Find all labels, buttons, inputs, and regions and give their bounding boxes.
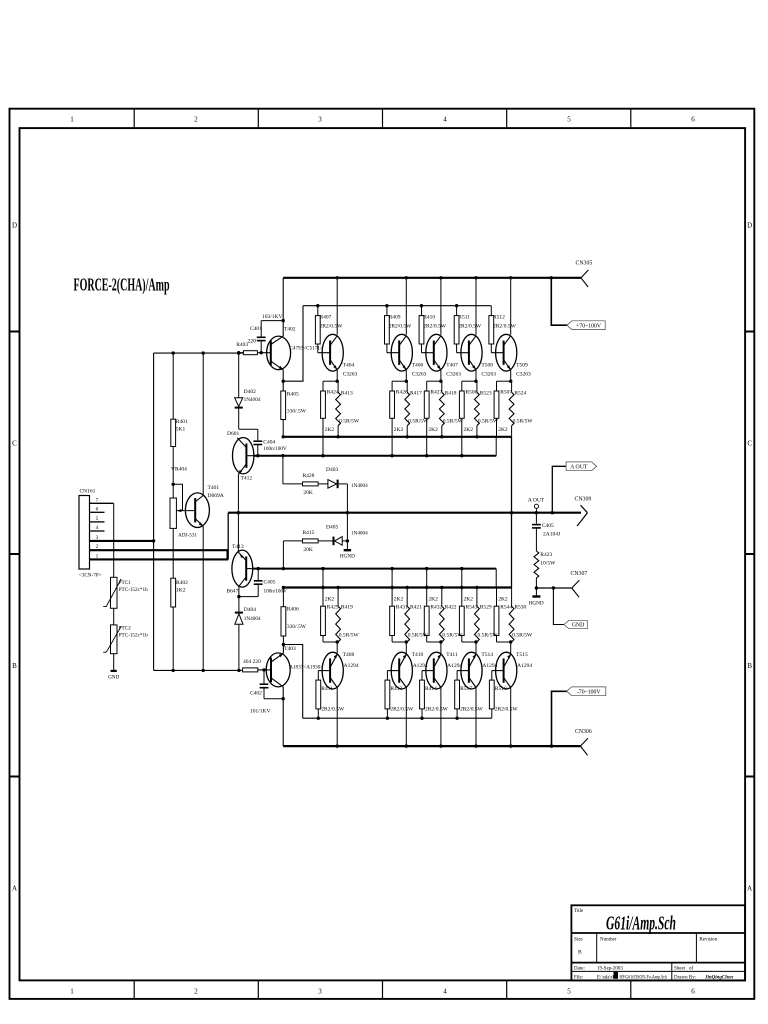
svg-text:VR404: VR404 [171,467,187,473]
wire lower bias to rail3 stubs [322,569,324,588]
svg-text:FORCE-2(CHA)/Amp: FORCE-2(CHA)/Amp [74,275,170,295]
svg-text:T404: T404 [343,363,355,369]
pin 7 CN161 [90,502,114,504]
svg-text:Number: Number [600,938,617,943]
diode D403 1N4004 [318,483,328,485]
wire bus-output-rail3 tie vertical [511,437,513,588]
diode D402 1N4004 [238,353,240,398]
svg-text:R421: R421 [410,604,422,610]
svg-text:Date:: Date: [574,966,585,971]
svg-text:C3263: C3263 [412,372,427,378]
thermistor PTC1 PTC-152c*1b [113,503,115,577]
svg-text:1N4004: 1N4004 [351,531,368,537]
resistor R506 2K2 [461,381,463,391]
svg-text:7: 7 [96,497,99,503]
svg-text:2: 2 [194,116,198,124]
svg-text:R544: R544 [500,604,512,610]
ground HGND at D405 [346,539,349,542]
svg-text:Revision: Revision [699,938,717,943]
svg-text:0.5R/5W: 0.5R/5W [443,419,464,425]
wire T411 collector [440,688,442,747]
resistor R432 2K2 [426,588,428,607]
svg-text:0.5R/5W: 0.5R/5W [408,419,429,425]
wire upper bias line [254,455,497,457]
svg-text:HGND: HGND [340,554,355,560]
svg-text:220: 220 [253,659,262,665]
wire pin1 to output [90,558,229,560]
svg-text:R418: R418 [445,391,457,397]
capacitor C404 100n/100V [257,429,259,440]
svg-text:A1294: A1294 [344,663,359,669]
pin 4 CN161 [90,530,105,532]
resistor R419 0.5R/5W [337,588,339,607]
svg-text:JinQingChen: JinQingChen [704,974,733,980]
svg-text:D601: D601 [227,431,239,437]
wire T407 emitter [440,370,442,381]
transistor T402 C4793 [257,352,270,354]
svg-text:HGND: HGND [529,601,544,607]
resistor R507 2K2 [496,381,498,391]
svg-text:T412: T412 [241,476,253,482]
svg-text:B: B [578,950,582,956]
svg-text:CN309: CN309 [575,497,592,503]
svg-text:G61i/Amp.Sch: G61i/Amp.Sch [606,913,676,935]
svg-text:R424: R424 [327,390,339,396]
resistor R405 330/.5W [281,391,286,420]
svg-text:T402: T402 [284,327,296,333]
svg-text:2K2: 2K2 [498,596,508,602]
wire T410 emitter [392,641,406,643]
resistor R421 0.5R/5W [406,588,408,607]
resistor R402 1K2 [171,578,176,607]
resistor R428 20K [303,482,319,486]
svg-text:R530: R530 [514,604,526,610]
capacitor C402 10n/1KV [263,670,265,684]
svg-text:Sheet: Sheet [674,966,686,971]
transistor T403 A1837 [258,669,271,671]
svg-text:220: 220 [248,339,256,345]
svg-text:2R2/0.5W: 2R2/0.5W [495,707,519,713]
sheet border inner frame [20,128,746,980]
svg-text:A: A [12,885,17,893]
svg-text:2R2/0.5W: 2R2/0.5W [460,707,484,713]
svg-text:4: 4 [443,116,447,124]
resistor R426 2K2 [391,381,393,391]
transistor T509 C3263 [510,278,512,335]
resistor R409 base 2R2/0.5W [386,306,388,316]
transistor T514 A1294 [461,652,482,689]
svg-text:5: 5 [96,516,99,522]
svg-text:D405: D405 [326,525,338,531]
svg-text:101/1KV: 101/1KV [250,709,271,715]
svg-text:1N4004: 1N4004 [244,397,261,403]
wire to GND flag [552,586,555,589]
resistor R414 base 2R2/0.5W [421,671,423,681]
svg-text:T403: T403 [284,646,296,652]
wire upper output bus [283,436,511,438]
svg-text:2R2/0.5W: 2R2/0.5W [320,324,344,330]
diode D404 1N4004 [235,612,243,614]
svg-text:R506: R506 [466,390,478,396]
svg-text:10/5W: 10/5W [540,561,556,567]
frame column ticks [133,109,135,128]
node upper base rail dots [316,304,319,307]
svg-text:2R2/0.5W: 2R2/0.5W [425,707,449,713]
svg-text:CN161: CN161 [80,489,96,495]
diode D405 1N4004 [318,540,333,542]
svg-text:<3CN-7P>: <3CN-7P> [79,573,102,579]
wire pin3 to input node [90,540,154,542]
wire to A OUT flag [552,466,566,512]
svg-text:R517: R517 [460,686,472,692]
transistor T406 C3263 [405,278,407,335]
resistor R413 base 2R2/0.5W [386,671,388,681]
wire T509 emitter [510,370,512,381]
resistor R427 2K2 [426,381,428,391]
svg-text:T515: T515 [516,652,528,658]
svg-text:B: B [12,662,17,670]
svg-text:0.5R/5W: 0.5R/5W [478,419,499,425]
wire T508 emitter [475,370,477,381]
svg-text:2K2: 2K2 [325,427,335,433]
svg-text:2: 2 [194,988,198,996]
wire VR404 to R402 [172,528,174,578]
svg-text:GND: GND [572,623,585,629]
pin 5 CN161 [90,521,105,523]
wire HGND line to CN307 [535,586,538,589]
resistor R524 0.5R/5W [511,381,513,392]
svg-text:A OUT: A OUT [528,498,545,504]
svg-text:1N4004: 1N4004 [244,616,261,622]
svg-text:R411: R411 [321,686,333,692]
svg-text:5K1: 5K1 [176,427,186,433]
svg-text:1: 1 [70,116,74,124]
wire T403 emitter to lower base rail [282,645,284,654]
wire bias to R415 [282,541,284,569]
wire T413 collector [238,586,240,612]
frame row ticks [10,331,20,333]
node output line dots [237,511,240,514]
svg-text:R524: R524 [514,391,526,397]
node bottom rail dots [336,744,339,747]
wire top bias feed line [154,352,244,354]
svg-text:PTC-152c*1b: PTC-152c*1b [119,587,149,593]
svg-text:CN305: CN305 [576,261,593,267]
svg-text:2K2: 2K2 [464,427,474,433]
svg-text:R402: R402 [176,580,188,586]
svg-text:C405: C405 [264,580,276,586]
wire +V top rail [283,277,581,279]
pin 6 CN161 [90,511,105,513]
title block title row divider [571,932,745,934]
svg-text:D: D [747,222,752,230]
svg-text:GND: GND [108,675,119,681]
wire upper base rail [303,305,491,307]
svg-text:R417: R417 [410,391,422,397]
power flag +70~100V [567,321,605,330]
svg-text:+70~100V: +70~100V [576,323,602,329]
svg-text:R422: R422 [445,604,457,610]
power flag -70~100V [567,687,606,696]
svg-text:R523: R523 [480,391,492,397]
svg-text:6: 6 [691,988,695,996]
svg-text:2K2: 2K2 [428,427,438,433]
svg-text:A: A [747,885,752,893]
svg-text:D402: D402 [244,389,256,395]
svg-text:20K: 20K [303,547,313,553]
resistor R544 2K2 [496,588,498,607]
resistor R410 base 2R2/0.5W [421,306,423,316]
node lower base rail dots [317,717,320,720]
resistor R543 2K2 [461,588,463,607]
title block size/number row divider [571,962,745,964]
svg-text:D669A: D669A [208,493,224,499]
svg-text:C405: C405 [542,523,554,529]
resistor R529 0.5R/5W [476,588,478,607]
resistor R404 220 [243,668,258,672]
wire input node vertical [153,353,155,670]
svg-text:6: 6 [96,506,99,512]
transistor T410 A1294 [391,652,412,689]
svg-text:2R2/0.5W: 2R2/0.5W [321,707,345,713]
svg-text:of: of [689,966,694,971]
wire T403 collector [282,687,284,746]
wire D403 to output node [346,484,348,541]
svg-text:R401: R401 [176,419,188,425]
svg-text:Size: Size [574,938,583,943]
svg-text:330/.5W: 330/.5W [287,409,307,415]
svg-text:4: 4 [443,988,447,996]
svg-text:R405: R405 [287,392,299,398]
svg-text:R413: R413 [341,391,353,397]
svg-text:Drawn By:: Drawn By: [674,975,696,980]
capacitor C405 100n/100V [257,569,259,580]
svg-text:T514: T514 [481,652,493,658]
wire upper bias to bus stubs [322,437,324,456]
svg-text:R407: R407 [320,315,332,321]
resistor R517 base 2R2/0.5W [456,671,458,681]
wire bottom left rail [154,669,243,671]
svg-text:2K2: 2K2 [394,427,404,433]
svg-text:R429: R429 [327,604,339,610]
ground GND input [113,654,115,670]
transistor T404 C3263 [336,278,338,335]
svg-text:C: C [747,440,752,448]
svg-text:2R2/0.5W: 2R2/0.5W [458,324,482,330]
svg-text:103/1KV: 103/1KV [262,314,283,320]
resistor R424 2K2 [322,381,324,391]
title block outline [571,905,745,980]
wire T401 emitter [202,526,204,670]
transistor T401 D669A [185,493,209,528]
wire T514 emitter [462,641,476,643]
svg-text:C3263: C3263 [343,372,358,378]
resistor R413 0.5R/5W [337,381,339,392]
wire T514 collector [475,688,477,747]
svg-text:T410: T410 [412,652,424,658]
svg-text:100n/100V: 100n/100V [264,589,288,595]
svg-text:R543: R543 [466,604,478,610]
resistor R417 0.5R/5W [406,381,408,392]
svg-text:3: 3 [318,988,322,996]
wire T408 collector [336,688,338,747]
title block date row [571,970,745,972]
resistor R429 2K2 [322,588,324,607]
svg-text:2R2/0.5W: 2R2/0.5W [493,324,517,330]
svg-text:B: B [747,662,752,670]
wire -V bottom rail [283,745,580,747]
svg-text:File:: File: [574,975,583,980]
svg-text:Title: Title [574,909,584,914]
node top rail junction dots [336,276,339,279]
svg-text:-70~100V: -70~100V [577,690,602,696]
svg-text:19-Sep-2003: 19-Sep-2003 [597,966,623,971]
svg-text:R413: R413 [390,686,402,692]
wire T410 collector [405,688,407,747]
svg-text:3: 3 [318,116,322,124]
svg-text:2K2: 2K2 [464,596,474,602]
svg-text:1N4004: 1N4004 [351,483,368,489]
svg-text:2R2/0.5W: 2R2/0.5W [389,324,413,330]
svg-text:R529: R529 [480,604,492,610]
svg-text:2R2/0.5W: 2R2/0.5W [390,707,414,713]
resistor R422 0.5R/5W [441,588,443,607]
resistor R423 10/5W [534,551,539,578]
wire -V to supply flag [552,691,567,746]
svg-text:R427: R427 [430,390,442,396]
wire bias to R428 [282,456,284,484]
svg-text:T509: T509 [516,363,528,369]
svg-text:PTC1: PTC1 [119,580,132,586]
svg-text:R414: R414 [425,686,437,692]
connector CN161 [79,496,90,570]
svg-text:ADJ-531: ADJ-531 [178,533,197,539]
svg-text:T407: T407 [446,363,458,369]
wire T401 collector [202,353,204,495]
svg-text:1: 1 [70,988,74,996]
svg-text:4: 4 [96,525,99,531]
svg-text:T408: T408 [343,652,355,658]
wire T515 collector [510,688,512,747]
capacitor C405 2A104J output [535,513,537,524]
wire lower base rail [303,717,492,719]
svg-text:A1294: A1294 [517,663,532,669]
svg-text:R507: R507 [500,390,512,396]
svg-text:6: 6 [691,116,695,124]
svg-text:R432: R432 [430,604,442,610]
wire T402 emitter to base rail [282,370,284,391]
svg-text:C: C [12,440,17,448]
svg-text:0.5R/5W: 0.5R/5W [513,419,534,425]
svg-text:R426: R426 [396,390,408,396]
ground HGND at R423 [535,588,537,596]
svg-text:T508: T508 [481,363,493,369]
svg-text:R428: R428 [303,473,315,479]
ground flag GND [564,620,587,628]
svg-text:A1837<A1930>: A1837<A1930> [289,665,323,671]
wire +V to supply flag [551,278,567,325]
wire T404 emitter [336,370,338,381]
svg-text:D404: D404 [244,607,256,613]
svg-text:T406: T406 [412,363,424,369]
svg-text:C3263: C3263 [446,372,461,378]
resistor R411 base 2R2/0.5W [317,671,319,681]
svg-text:2K2: 2K2 [428,596,438,602]
transistor T408 A1294 [322,652,343,689]
svg-text:D403: D403 [326,467,338,473]
svg-text:C4793<C5171>: C4793<C5171> [289,346,323,352]
wire T406 emitter [405,370,407,381]
svg-text:330/.5W: 330/.5W [287,624,307,630]
svg-text:1K2: 1K2 [176,588,186,594]
svg-text:5: 5 [567,116,571,124]
svg-text:R410: R410 [423,315,435,321]
node upper bus dots [282,435,285,438]
svg-text:PTC-152c*1b: PTC-152c*1b [119,633,149,639]
resistor R415 20K [303,539,319,543]
svg-text:0.5R/5W: 0.5R/5W [339,633,360,639]
svg-text:R415: R415 [303,530,315,536]
svg-text:R406: R406 [287,607,299,613]
capacitor C401 10n/1KV [260,342,262,353]
wire T515 emitter [497,641,511,643]
svg-text:R423: R423 [540,552,552,558]
resistor R407 base 2R2/0.5W [317,306,319,316]
svg-text:D: D [12,222,17,230]
resistor R518 base 2R2/0.5W [491,671,493,681]
svg-text:100n/100V: 100n/100V [263,446,287,452]
transistor T508 C3263 [475,278,477,335]
svg-text:C404: C404 [263,440,275,446]
transistor T515 A1294 [496,652,517,689]
svg-text:R403: R403 [236,342,248,348]
transistor T407 C3263 [440,278,442,335]
thermistor PTC2 PTC-152c*1b [113,608,115,625]
svg-text:T401: T401 [208,485,220,491]
wire T411 emitter [427,641,441,643]
svg-text:20K: 20K [303,490,313,496]
resistor R530 0.5R/5W [511,588,513,607]
svg-text:R511: R511 [458,315,470,321]
svg-text:C3263: C3263 [516,372,531,378]
svg-text:R419: R419 [341,604,353,610]
resistor R511 base 2R2/0.5W [456,306,458,316]
svg-text:C3263: C3263 [481,372,496,378]
resistor R406 330/.5W [282,588,284,607]
transistor T411 A1294 [426,652,447,689]
svg-text:2R2/0.5W: 2R2/0.5W [423,324,447,330]
svg-text:2K2: 2K2 [498,427,508,433]
svg-text:A OUT: A OUT [570,465,588,471]
svg-text:404: 404 [243,659,252,665]
svg-text:A1294: A1294 [447,663,462,669]
resistor R418 0.5R/5W [441,381,443,392]
svg-text:R409: R409 [389,315,401,321]
resistor R431 2K2 [391,588,393,607]
node rail3 dots [282,586,285,589]
resistor R523 0.5R/5W [476,381,478,392]
svg-text:R518: R518 [495,686,507,692]
resistor R403 220 [239,352,244,354]
svg-text:0.5R/5W: 0.5R/5W [339,419,360,425]
signal flag A OUT [566,462,597,471]
svg-text:C402: C402 [250,691,262,697]
wire main output line A OUT [228,512,581,514]
resistor R512 base 2R2/0.5W [490,306,492,316]
svg-text:\09\G61i\DSON-Fo-Amp.Sch: \09\G61i\DSON-Fo-Amp.Sch [619,975,667,980]
svg-text:R512: R512 [493,315,505,321]
wire lower bias line end corner [495,569,497,588]
